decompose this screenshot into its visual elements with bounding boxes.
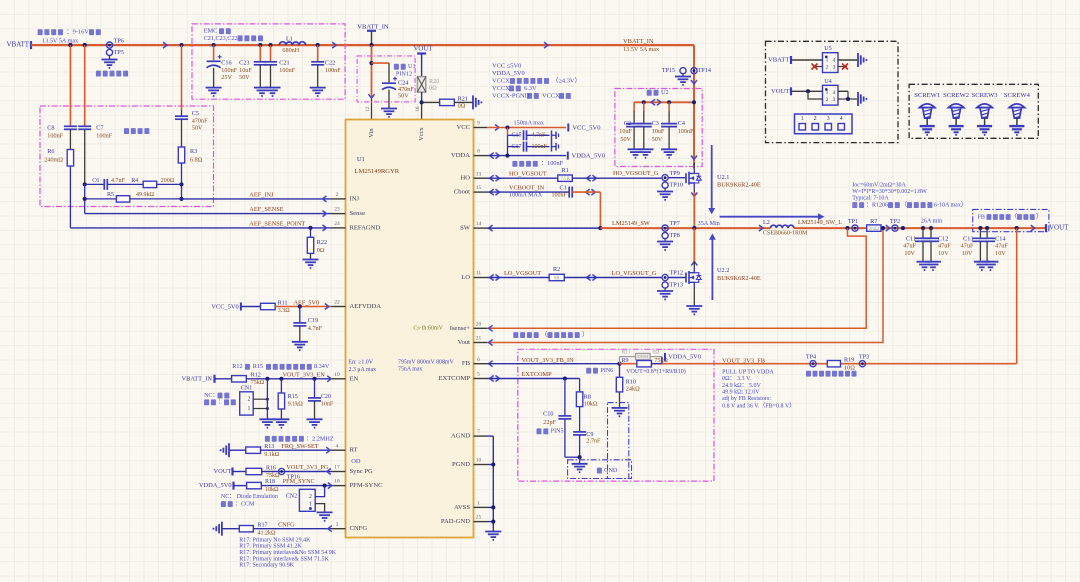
together box bbox=[40, 106, 214, 207]
wire EXTCOMP bbox=[487, 376, 580, 382]
net label HO_VGSOUT bbox=[509, 170, 547, 177]
screw SCREW3 bbox=[972, 92, 999, 135]
svg-text:50V: 50V bbox=[192, 125, 203, 132]
svg-text:20: 20 bbox=[476, 321, 482, 327]
label C5 bbox=[192, 110, 208, 132]
note CN2 NC bbox=[221, 494, 278, 507]
svg-text:L2: L2 bbox=[763, 219, 770, 226]
svg-text:R6: R6 bbox=[47, 148, 54, 155]
junction bbox=[881, 226, 885, 230]
svg-text:：R1206: ：R1206 bbox=[866, 202, 888, 208]
svg-text:75kΩ: 75kΩ bbox=[251, 380, 265, 386]
svg-text:10: 10 bbox=[476, 458, 482, 464]
capacitor C17 bbox=[508, 135, 550, 155]
svg-text:VCC_5V0: VCC_5V0 bbox=[572, 125, 601, 132]
capacitor C15 bbox=[508, 130, 550, 140]
wire VBATT bus bbox=[31, 44, 694, 46]
note phase test point bbox=[806, 371, 857, 377]
svg-text:1: 1 bbox=[247, 406, 250, 412]
chassis ground U5 bbox=[858, 53, 866, 67]
port VDDA_5V0 pfm bbox=[199, 482, 234, 490]
svg-text:CSEB0660-1R0M: CSEB0660-1R0M bbox=[763, 230, 808, 236]
svg-text:PIN5: PIN5 bbox=[551, 429, 564, 435]
svg-text:1: 1 bbox=[801, 116, 804, 122]
svg-text:R4: R4 bbox=[131, 178, 138, 184]
net label LM25149_SW_L bbox=[798, 219, 842, 226]
svg-text:4: 4 bbox=[840, 116, 843, 122]
wire AEF_INJ bbox=[182, 196, 332, 202]
svg-text:VCC: VCC bbox=[456, 124, 470, 131]
pin 8 VDDA bbox=[451, 149, 487, 159]
U2 decoupling box bbox=[615, 89, 702, 167]
note close to U2 bbox=[647, 89, 669, 96]
svg-text:18: 18 bbox=[334, 479, 340, 485]
label C11 bbox=[903, 235, 916, 257]
svg-text:VCCX:: VCCX: bbox=[492, 77, 512, 84]
wire U5 out bbox=[838, 59, 857, 61]
wire LO right bbox=[564, 275, 662, 281]
svg-text:17: 17 bbox=[334, 465, 340, 471]
capacitor C23 bbox=[254, 45, 267, 88]
svg-text:1: 1 bbox=[826, 58, 829, 64]
connector header bbox=[795, 114, 853, 134]
ground C4 bbox=[661, 149, 677, 157]
resistor R11 DNM bbox=[620, 349, 663, 363]
svg-text:C8: C8 bbox=[47, 124, 54, 131]
pin 21 Vout bbox=[458, 336, 487, 346]
svg-text:0Ω: 0Ω bbox=[429, 85, 437, 92]
capacitor C9 bbox=[573, 407, 601, 458]
svg-text:9.1kΩ: 9.1kΩ bbox=[264, 452, 280, 458]
pin 3 CNFG bbox=[332, 522, 368, 532]
junction bbox=[978, 226, 989, 230]
svg-text:OD: OD bbox=[351, 458, 361, 465]
svg-text:VOUT: VOUT bbox=[414, 46, 434, 53]
svg-text:49.9 kΩ: 12.0V: 49.9 kΩ: 12.0V bbox=[722, 389, 760, 395]
wire arrow down bbox=[691, 156, 697, 160]
svg-text:47uF: 47uF bbox=[938, 243, 951, 250]
svg-text:VCC_5V0: VCC_5V0 bbox=[211, 303, 238, 310]
jumper U4 bbox=[823, 78, 839, 105]
svg-text:C4: C4 bbox=[678, 120, 685, 127]
wire arrow SW_L bbox=[759, 225, 763, 231]
resistor R7 bbox=[867, 218, 881, 232]
wire CNFG right bbox=[253, 526, 331, 532]
svg-text:AVSS: AVSS bbox=[454, 504, 470, 511]
svg-text:LO_VGSOUT_G: LO_VGSOUT_G bbox=[612, 270, 657, 277]
svg-text:10kΩ: 10kΩ bbox=[265, 487, 279, 493]
svg-text:10uF: 10uF bbox=[619, 128, 632, 135]
wire VCC bbox=[487, 125, 566, 131]
svg-text:50V: 50V bbox=[652, 136, 663, 143]
svg-text:RT: RT bbox=[350, 447, 358, 454]
inductor L2 bbox=[763, 219, 808, 236]
label C14 bbox=[995, 235, 1008, 257]
label C16 bbox=[221, 60, 237, 82]
wire FB in bbox=[487, 361, 620, 367]
wire AGND rail bbox=[487, 436, 493, 531]
port VOUT right bbox=[1046, 224, 1069, 232]
note Ioc lines bbox=[852, 183, 927, 202]
svg-text:10uF: 10uF bbox=[239, 67, 252, 74]
svg-text:AEF_SENSE: AEF_SENSE bbox=[249, 206, 283, 213]
net label LM25149_SW bbox=[612, 220, 650, 227]
svg-text:R17: Primary SSM 41.2K: R17: Primary SSM 41.2K bbox=[239, 544, 302, 550]
pin 23 Sense bbox=[332, 207, 365, 217]
wire PG bbox=[262, 469, 332, 475]
svg-text:PIN12: PIN12 bbox=[396, 71, 412, 78]
note switching freq bbox=[265, 435, 334, 442]
net label VOUT_3V3_EN bbox=[283, 372, 326, 379]
junction bbox=[316, 43, 320, 47]
label R21 bbox=[458, 95, 468, 109]
svg-text:13.5V 5A max: 13.5V 5A max bbox=[42, 37, 79, 44]
svg-text:2: 2 bbox=[247, 397, 250, 403]
net label PFM_SYNC bbox=[283, 478, 315, 485]
note close PIN5 bbox=[537, 428, 564, 434]
capacitor C19 bbox=[293, 307, 322, 342]
port VBATT bbox=[7, 41, 32, 49]
ground C13 C14 bbox=[974, 262, 999, 270]
wire to R16 bbox=[233, 471, 247, 473]
capacitor C22 bbox=[311, 45, 324, 88]
transistor U2.2 bbox=[686, 268, 701, 307]
no-connect X bbox=[812, 64, 818, 70]
net label VCBOOT_IN bbox=[509, 185, 545, 199]
wire to R11 bbox=[241, 306, 261, 308]
junction bbox=[68, 43, 72, 47]
junction bbox=[83, 197, 184, 201]
test point TP15 bbox=[662, 67, 686, 74]
svg-text:200Ω: 200Ω bbox=[161, 178, 175, 184]
svg-text:U5: U5 bbox=[824, 45, 832, 52]
junction bbox=[598, 226, 602, 230]
wire VBATT_IN right bbox=[693, 45, 695, 168]
label C13 bbox=[961, 235, 974, 257]
svg-text:R13: R13 bbox=[264, 444, 274, 450]
label C10 bbox=[543, 410, 556, 426]
chassis ground CNFG bbox=[214, 522, 222, 536]
svg-text:VDDA_5V0: VDDA_5V0 bbox=[572, 153, 606, 160]
test point TP5 bbox=[106, 49, 124, 56]
wire Isense tap bbox=[487, 228, 866, 331]
resistor R9 bbox=[622, 357, 669, 367]
svg-text:REFAGND: REFAGND bbox=[350, 224, 381, 231]
svg-text:L1: L1 bbox=[286, 35, 293, 42]
wire C7 R5 bbox=[84, 184, 86, 213]
wire gate U2.1 bbox=[668, 177, 686, 179]
wire SW bbox=[487, 225, 600, 231]
note close to U1 PIN12 bbox=[394, 63, 416, 77]
svg-text:25V: 25V bbox=[221, 74, 232, 81]
svg-text:VCC ≤5V0: VCC ≤5V0 bbox=[492, 62, 521, 69]
ground C19 bbox=[292, 342, 308, 350]
svg-text:LM25149RGYR: LM25149RGYR bbox=[355, 168, 400, 175]
svg-text:C17: C17 bbox=[511, 144, 521, 150]
svg-text:R22: R22 bbox=[317, 239, 327, 246]
net label VOUT_3V3_PG bbox=[286, 464, 328, 471]
pin 12 Vin bbox=[365, 106, 375, 137]
ground C24 bbox=[381, 109, 397, 117]
test point TP13 bbox=[662, 281, 683, 288]
svg-text:AEF_INJ: AEF_INJ bbox=[249, 191, 274, 198]
svg-text:0R: 0R bbox=[554, 276, 561, 281]
junction bbox=[258, 43, 272, 47]
svg-text:100nF: 100nF bbox=[325, 67, 341, 74]
note 35A Min bbox=[698, 220, 720, 227]
label C2 bbox=[619, 120, 632, 143]
screw SCREW2 bbox=[943, 92, 969, 135]
screw SCREW4 bbox=[1004, 92, 1031, 135]
svg-text:）: ） bbox=[1036, 213, 1042, 220]
svg-text:FB: FB bbox=[978, 214, 985, 220]
svg-text:TP12: TP12 bbox=[670, 270, 683, 277]
svg-text:VDDA_5V0: VDDA_5V0 bbox=[492, 70, 525, 77]
svg-text:0Ω: 0Ω bbox=[458, 103, 466, 110]
capacitor C3 bbox=[636, 102, 652, 149]
svg-text:100mA MAX: 100mA MAX bbox=[509, 193, 543, 199]
resistor R1 bbox=[558, 167, 573, 182]
svg-text:TP14: TP14 bbox=[698, 67, 711, 74]
connector CN2 bbox=[286, 489, 315, 511]
svg-text:U2: U2 bbox=[661, 89, 669, 96]
note input voltage bbox=[38, 29, 101, 36]
current arrow down bbox=[708, 145, 715, 214]
transistor U2.1 bbox=[686, 163, 701, 192]
svg-text:C10: C10 bbox=[543, 410, 553, 417]
resistor R3 bbox=[178, 147, 202, 163]
test point TP9 bbox=[662, 170, 680, 181]
wire Vin drop bbox=[369, 45, 375, 119]
svg-text:VOUT_3V3_EN: VOUT_3V3_EN bbox=[283, 372, 326, 379]
pin 14 SW bbox=[460, 221, 487, 231]
capacitor C8 bbox=[64, 45, 77, 149]
svg-text:0Ω: 0Ω bbox=[317, 247, 325, 254]
svg-text:SCREW3: SCREW3 bbox=[972, 92, 999, 99]
wire PFM bbox=[261, 483, 332, 489]
junction bbox=[1015, 226, 1019, 230]
wire U2.2 drain bbox=[691, 228, 697, 267]
note common GND bbox=[597, 467, 618, 474]
svg-text:BUK9K6R2-40E: BUK9K6R2-40E bbox=[717, 275, 761, 282]
svg-text:10uF: 10uF bbox=[652, 128, 665, 135]
svg-text:15: 15 bbox=[476, 185, 482, 191]
net label EXTCOMP bbox=[522, 371, 553, 378]
note 26A min bbox=[921, 218, 943, 225]
svg-text:VOUT_3V3_FB: VOUT_3V3_FB bbox=[722, 357, 765, 364]
svg-text:（≥4.3V）: （≥4.3V） bbox=[552, 76, 581, 84]
svg-text:4: 4 bbox=[833, 90, 836, 96]
wire FB right bbox=[813, 228, 1017, 364]
net label AEF_SENSE_POINT bbox=[249, 220, 305, 227]
svg-text:680nH: 680nH bbox=[282, 47, 299, 54]
svg-text:R8: R8 bbox=[584, 393, 591, 400]
junction bbox=[369, 61, 373, 65]
svg-text:VBATT: VBATT bbox=[7, 41, 30, 49]
label C24 bbox=[398, 80, 414, 100]
capacitor C12 bbox=[923, 228, 939, 262]
wire arrows bbox=[651, 99, 661, 105]
svg-text:C23: C23 bbox=[239, 60, 249, 67]
svg-text:FB: FB bbox=[462, 360, 471, 367]
svg-text:C11: C11 bbox=[906, 235, 916, 242]
svg-text:470nF: 470nF bbox=[192, 117, 208, 124]
resistor R2 bbox=[549, 266, 564, 281]
svg-text:3: 3 bbox=[827, 116, 830, 122]
svg-text:C3: C3 bbox=[652, 120, 659, 127]
junction bbox=[298, 304, 302, 308]
svg-text:22: 22 bbox=[334, 300, 340, 306]
wire arrow down bbox=[691, 80, 697, 84]
svg-text:6: 6 bbox=[477, 357, 480, 363]
svg-text:R2: R2 bbox=[553, 266, 560, 273]
svg-text:C13: C13 bbox=[963, 235, 973, 242]
wire to R12 bbox=[215, 378, 232, 380]
svg-text:100nF: 100nF bbox=[47, 133, 63, 140]
svg-text:Vout: Vout bbox=[458, 339, 471, 346]
svg-text:U2.2: U2.2 bbox=[717, 267, 729, 274]
port VBATT_IN bbox=[357, 24, 389, 31]
pin 4 RT bbox=[332, 443, 361, 465]
svg-text:（: （ bbox=[901, 201, 907, 208]
svg-text:R15: R15 bbox=[288, 394, 298, 400]
svg-text:8.34V: 8.34V bbox=[314, 363, 330, 370]
pin 11 LO bbox=[461, 271, 487, 281]
svg-text:PAD-GND: PAD-GND bbox=[441, 518, 470, 525]
wire RT right bbox=[261, 447, 332, 453]
svg-text:47uF: 47uF bbox=[961, 243, 974, 250]
svg-text:C22: C22 bbox=[325, 60, 335, 67]
svg-text:TP4: TP4 bbox=[806, 354, 816, 361]
svg-text:2.7nF: 2.7nF bbox=[586, 438, 601, 445]
wire arrow bus bbox=[332, 42, 336, 48]
wire R21 gnd bbox=[454, 101, 473, 103]
ground TP15 bbox=[675, 74, 691, 85]
svg-text:AEFVDDA: AEFVDDA bbox=[350, 303, 382, 310]
capacitor C2 bbox=[626, 102, 642, 149]
R10 gnd box bbox=[608, 403, 629, 479]
resistor R16 bbox=[246, 465, 280, 479]
resistor R17 bbox=[239, 522, 276, 536]
pin 7 AGND bbox=[451, 429, 487, 439]
test point TP14 bbox=[691, 67, 711, 74]
svg-text:1: 1 bbox=[477, 500, 480, 506]
svg-text:1: 1 bbox=[826, 90, 829, 96]
svg-text:VOUT: VOUT bbox=[771, 88, 789, 95]
svg-text:Vccx: Vccx bbox=[418, 126, 425, 140]
wire arrow bus bbox=[163, 42, 167, 48]
wire to R18 bbox=[234, 485, 247, 487]
net label VOUT_3V3_FB bbox=[722, 357, 765, 364]
svg-text:BUK9K6R2-40E: BUK9K6R2-40E bbox=[717, 182, 761, 189]
svg-text:100nF: 100nF bbox=[221, 67, 237, 74]
net label AEF_5V0 bbox=[294, 299, 319, 306]
junction bbox=[83, 182, 184, 186]
ground EXTCOMP bbox=[572, 464, 588, 472]
ground CN1 bbox=[259, 419, 275, 427]
junction bbox=[505, 125, 509, 129]
pin 1 AVSS bbox=[454, 500, 487, 510]
wire cap rail bbox=[634, 101, 694, 103]
capacitor C4 bbox=[661, 102, 677, 149]
svg-text:10V: 10V bbox=[938, 250, 949, 257]
svg-text:10V: 10V bbox=[962, 250, 973, 257]
svg-text:VBATT_IN: VBATT_IN bbox=[182, 375, 213, 382]
label C21 bbox=[279, 60, 295, 74]
svg-text:9: 9 bbox=[477, 121, 480, 127]
svg-text:26A min: 26A min bbox=[921, 218, 943, 225]
svg-text:11: 11 bbox=[476, 271, 482, 277]
svg-text:R17: Primary interlave& SSM 71: R17: Primary interlave& SSM 71.5K bbox=[239, 556, 329, 562]
junction bbox=[369, 43, 373, 47]
svg-text:C5: C5 bbox=[192, 110, 199, 117]
svg-text:24: 24 bbox=[334, 221, 340, 227]
svg-text:LM25149_SW_L: LM25149_SW_L bbox=[798, 219, 842, 226]
wire AEF_SENSE_POINT bbox=[70, 225, 331, 231]
junction bbox=[505, 154, 509, 158]
svg-text:adj by FB Resistors:: adj by FB Resistors: bbox=[722, 396, 771, 402]
wire gate U2.2 bbox=[668, 277, 686, 279]
svg-text:47uF: 47uF bbox=[903, 243, 916, 250]
wire HO bbox=[487, 175, 558, 181]
svg-text:PULL UP TO VDDA: PULL UP TO VDDA bbox=[722, 369, 774, 375]
resistor R11 aef bbox=[261, 300, 291, 314]
resistor R5 bbox=[85, 192, 182, 202]
label C12 bbox=[938, 235, 951, 257]
svg-text:75kΩ: 75kΩ bbox=[266, 473, 280, 479]
test point TP3 bbox=[859, 354, 869, 367]
note close PIN6 bbox=[586, 368, 613, 374]
svg-text:CNFG: CNFG bbox=[350, 525, 368, 532]
svg-text:PGND: PGND bbox=[452, 461, 470, 468]
pin 10 PGND bbox=[452, 458, 487, 468]
label U2.2 bbox=[717, 267, 761, 282]
ground TP10 bbox=[657, 188, 673, 200]
net label VBATT_IN bbox=[623, 38, 660, 53]
svg-text:：: ： bbox=[218, 400, 224, 406]
svg-text:CN2: CN2 bbox=[286, 493, 297, 499]
note C21 C23 C22 optional bbox=[204, 35, 263, 42]
note 13.5V 5A max bbox=[42, 37, 79, 44]
svg-text:0.8 V and 36 V.（FB=0.8 V）: 0.8 V and 36 V.（FB=0.8 V） bbox=[722, 403, 795, 410]
wire gnd join bbox=[565, 455, 582, 464]
net label LO_VGSOUT bbox=[504, 270, 541, 277]
ground TP5 bbox=[102, 56, 118, 68]
svg-text:EMC: EMC bbox=[204, 28, 218, 35]
resistor R4 bbox=[131, 178, 181, 188]
resistor R20 DNP bbox=[417, 77, 425, 93]
svg-text:2: 2 bbox=[826, 97, 829, 103]
no-connect X bbox=[842, 64, 848, 70]
note 150mA max bbox=[514, 120, 545, 127]
svg-text:（: （ bbox=[541, 331, 547, 338]
wire L2 right bbox=[771, 227, 1047, 229]
svg-text:41.2kΩ: 41.2kΩ bbox=[258, 530, 277, 536]
svg-text:TP3: TP3 bbox=[859, 354, 869, 361]
svg-text:10kΩ: 10kΩ bbox=[584, 400, 598, 407]
svg-text:NC： Diode Emulation: NC： Diode Emulation bbox=[221, 494, 278, 500]
svg-text:Isense+: Isense+ bbox=[450, 325, 470, 332]
svg-text:TP13: TP13 bbox=[670, 281, 683, 288]
svg-text:GND: GND bbox=[604, 467, 618, 474]
wire Cboot bbox=[487, 189, 569, 195]
wire arrow out2 bbox=[1031, 225, 1035, 231]
svg-text:Vin: Vin bbox=[368, 128, 375, 138]
wire CN2 pin2 bbox=[315, 486, 324, 497]
svg-text:R12: R12 bbox=[251, 373, 261, 379]
connector CN1 bbox=[240, 386, 269, 415]
svg-text:Cboot: Cboot bbox=[454, 189, 470, 196]
